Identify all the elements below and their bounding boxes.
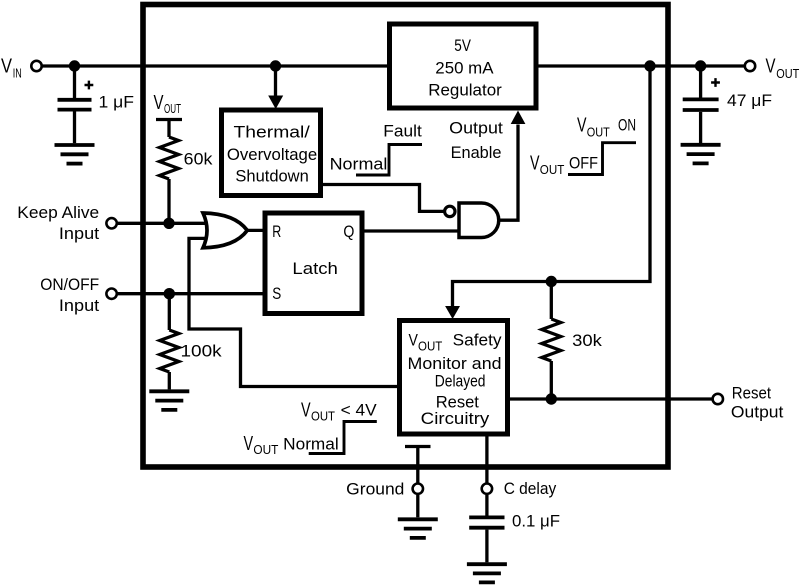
svg-text:60k: 60k: [184, 150, 213, 169]
capacitor C1 1uF: [58, 66, 92, 143]
wire OR lower input feedback from safety monitor: [189, 238, 400, 386]
ground GND R3: [149, 391, 189, 410]
label Output Enable: [449, 119, 503, 163]
svg-text:V: V: [301, 399, 311, 421]
wire latch Q to NAND input: [362, 229, 459, 232]
svg-text:250 mA: 250 mA: [435, 59, 494, 78]
block U1 5V 250mA Regulator: [390, 24, 537, 108]
svg-text:IN: IN: [13, 66, 22, 81]
svg-text:Overvoltage: Overvoltage: [227, 145, 317, 164]
svg-text:V: V: [409, 331, 419, 350]
wire reset output: [508, 397, 712, 400]
label + polarity C1: [85, 81, 94, 90]
svg-text:R: R: [272, 222, 281, 241]
block U2 Thermal/Overvoltage Shutdown: [222, 110, 321, 196]
svg-text:Enable: Enable: [451, 143, 502, 162]
terminal ON/OFF Input: [106, 289, 116, 299]
svg-text:V: V: [154, 92, 164, 114]
svg-text:Normal: Normal: [283, 435, 339, 454]
label VOUT OFF: [530, 152, 598, 177]
svg-text:Input: Input: [59, 224, 100, 243]
junction reset node: [546, 393, 557, 404]
junction VOUT sense feed: [644, 60, 655, 71]
gate U6 OR keep-alive: [203, 213, 247, 248]
junction 60k bottom node: [163, 218, 174, 229]
svg-text:< 4V: < 4V: [341, 401, 378, 420]
svg-text:Thermal/: Thermal/: [234, 123, 311, 142]
label + polarity C2: [711, 78, 720, 87]
svg-text:OUT: OUT: [540, 162, 565, 177]
label VOUT node above 60k: [154, 92, 182, 116]
svg-text:Output: Output: [449, 119, 503, 138]
label 47 uF value: [727, 91, 772, 110]
svg-text:OUT: OUT: [776, 66, 799, 81]
wire OR output to latch R: [247, 229, 266, 232]
svg-text:V: V: [1, 56, 13, 78]
terminal Keep Alive Input: [106, 218, 116, 228]
label VOUT: [766, 56, 800, 82]
svg-text:Output: Output: [731, 403, 784, 422]
wire NAND output to regulator enable arrow: [499, 111, 526, 221]
svg-text:Ground: Ground: [346, 479, 404, 498]
wire ground pin tee: [405, 447, 431, 483]
svg-text:Q: Q: [343, 222, 354, 241]
svg-text:S: S: [272, 284, 281, 303]
svg-text:OUT: OUT: [587, 125, 610, 140]
svg-text:OUT: OUT: [164, 101, 181, 116]
svg-text:V: V: [577, 115, 587, 137]
NAND input bubble: [445, 206, 455, 216]
svg-text:Input: Input: [59, 296, 100, 315]
svg-text:C delay: C delay: [504, 479, 557, 498]
label VIN: [1, 56, 22, 81]
step symbol VOUT ON/OFF: [568, 143, 636, 175]
ground GND C2: [681, 145, 721, 164]
svg-text:Latch: Latch: [292, 259, 338, 278]
svg-text:V: V: [766, 56, 776, 78]
ground GND C1: [55, 145, 95, 164]
label VOUT Normal: [244, 433, 339, 457]
svg-text:0.1 μF: 0.1 μF: [512, 512, 560, 531]
label VOUT ON: [577, 115, 636, 140]
label ON/OFF Input: [40, 275, 99, 315]
wire C delay pin: [485, 434, 488, 483]
svg-text:1 μF: 1 μF: [99, 93, 135, 112]
resistor R2 30k: [542, 282, 561, 400]
svg-text:V: V: [244, 433, 254, 455]
svg-text:Keep Alive: Keep Alive: [17, 203, 99, 222]
svg-text:OUT: OUT: [253, 442, 278, 457]
svg-text:V: V: [530, 152, 540, 174]
terminal Reset Output: [713, 394, 723, 404]
svg-text:ON/OFF: ON/OFF: [40, 275, 99, 294]
svg-text:Circuitry: Circuitry: [421, 409, 490, 428]
terminal Ground: [413, 484, 423, 494]
label C delay: [504, 479, 557, 498]
junction 30k tap: [546, 276, 557, 287]
wire ON/OFF input to latch S: [118, 292, 266, 295]
gate U5 NAND output enable: [459, 203, 499, 238]
resistor R3 100k: [160, 294, 179, 390]
label Ground: [346, 479, 404, 498]
resistor R1 60k with VOUT stub: [156, 120, 182, 224]
terminal VIN: [31, 61, 41, 71]
svg-text:Reset: Reset: [732, 383, 772, 402]
wire thermal fault to NAND input: [321, 185, 444, 212]
svg-text:Monitor and: Monitor and: [408, 354, 502, 373]
outer IC boundary box: [143, 5, 668, 468]
label 0.1 uF value: [512, 512, 560, 531]
ground GND C3: [467, 564, 507, 582]
svg-text:100k: 100k: [181, 342, 223, 361]
svg-text:Shutdown: Shutdown: [235, 167, 308, 186]
wire VIN rail: [42, 64, 389, 67]
label 60k value: [184, 150, 213, 169]
junction thermal shutdown feed node: [270, 60, 281, 71]
svg-text:Delayed: Delayed: [435, 372, 486, 391]
svg-text:30k: 30k: [572, 331, 602, 350]
junction output cap node: [695, 60, 706, 71]
block U3 VOUT Safety Monitor and Delayed Reset Circuitry: [400, 321, 508, 435]
label VOUT < 4V: [301, 399, 377, 423]
block U4 Latch: [265, 213, 362, 314]
svg-text:OFF: OFF: [569, 154, 598, 173]
svg-text:5V: 5V: [454, 36, 471, 55]
wire VIN to thermal shutdown: [268, 66, 283, 109]
svg-text:47 μF: 47 μF: [727, 91, 772, 110]
svg-text:Fault: Fault: [383, 121, 422, 140]
label 100k value: [181, 342, 223, 361]
svg-text:Safety: Safety: [453, 331, 502, 350]
wire keep alive input: [118, 222, 207, 225]
terminal VOUT: [745, 61, 755, 71]
svg-text:ON: ON: [618, 115, 636, 134]
junction input cap node: [69, 60, 80, 71]
svg-text:OUT: OUT: [418, 339, 442, 354]
label Fault: [383, 121, 422, 140]
capacitor C3 0.1uF: [469, 495, 504, 562]
junction 100k top node: [164, 288, 175, 299]
wire VOUT sense drop to safety monitor: [445, 66, 650, 319]
label 30k value: [572, 331, 602, 350]
svg-text:OUT: OUT: [311, 409, 335, 424]
ground GND pin: [398, 495, 438, 538]
wire regulator output rail: [536, 64, 744, 67]
label Reset Output: [731, 383, 784, 421]
svg-text:Regulator: Regulator: [428, 80, 502, 99]
step symbol VOUT<4V / VOUT Normal: [309, 422, 377, 454]
svg-text:Normal: Normal: [330, 154, 388, 173]
label 1 uF value: [99, 93, 135, 112]
terminal C delay: [482, 484, 492, 494]
label Normal: [330, 154, 388, 173]
step symbol Normal/Fault: [356, 145, 422, 176]
label Keep Alive Input: [17, 203, 99, 243]
capacitor C2 47uF: [683, 66, 719, 143]
